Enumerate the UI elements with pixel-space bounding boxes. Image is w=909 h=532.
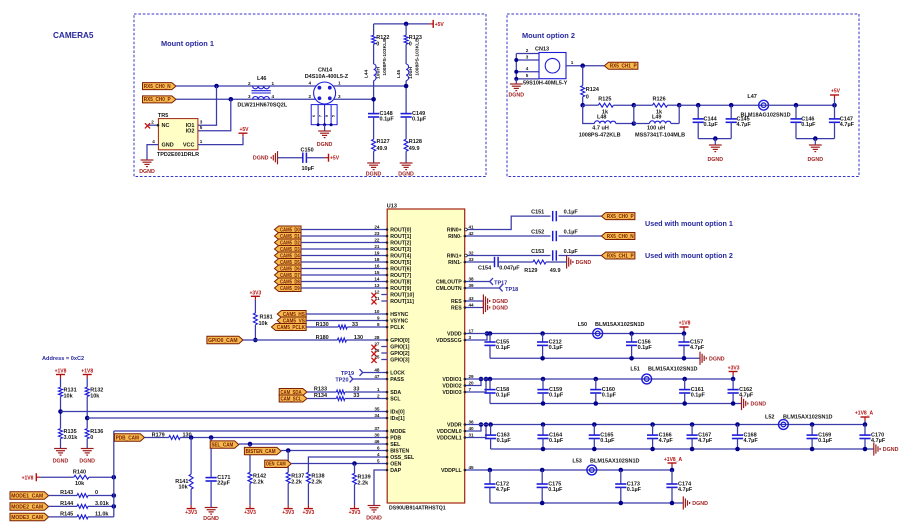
svg-text:3.01k: 3.01k <box>64 435 79 441</box>
capacitor C152 <box>552 231 554 241</box>
svg-text:BLM15AX102SN1D: BLM15AX102SN1D <box>783 415 833 421</box>
svg-text:RX5_CH1_P: RX5_CH1_P <box>607 253 634 259</box>
U13 pin 39 CMLOUTN <box>465 287 471 289</box>
svg-text:0.1µF: 0.1µF <box>549 393 564 399</box>
svg-text:32: 32 <box>469 250 475 255</box>
port CAM5_HS <box>277 311 306 318</box>
common-mode choke L46 <box>253 86 270 89</box>
svg-text:SDA: SDA <box>390 390 401 396</box>
junction IDx0 net <box>58 409 63 414</box>
U13 pin 1 SDA <box>381 391 387 393</box>
resistor R133 <box>336 390 345 394</box>
svg-text:20: 20 <box>469 380 475 385</box>
svg-text:6: 6 <box>312 115 316 117</box>
svg-text:1008PS-472KLB: 1008PS-472KLB <box>579 133 621 139</box>
svg-text:OSS_SEL: OSS_SEL <box>390 455 415 461</box>
capacitor C171 <box>206 477 217 479</box>
svg-text:0.1µF: 0.1µF <box>564 210 579 216</box>
svg-text:DLW21HN670SQ2L: DLW21HN670SQ2L <box>237 103 287 109</box>
svg-text:GPIO0_CAM: GPIO0_CAM <box>208 338 238 344</box>
wire RIN0- to C152 <box>471 235 551 237</box>
svg-text:R129: R129 <box>524 268 537 274</box>
U13 pin 29 VDDIO1 <box>465 378 471 380</box>
svg-text:DGND: DGND <box>751 402 767 408</box>
capacitor C166 <box>650 422 655 427</box>
svg-text:R181: R181 <box>260 315 273 321</box>
ground DGND RES 44 <box>471 307 483 309</box>
wire group4 ground rail <box>490 502 683 504</box>
svg-text:IO2: IO2 <box>186 129 195 135</box>
capacitor C173 <box>619 468 624 473</box>
U13 pin 2 SCL <box>381 398 387 400</box>
svg-text:L53: L53 <box>572 459 581 465</box>
capacitor C164 <box>541 422 546 427</box>
junction filter rail left <box>580 103 585 108</box>
U13 pin 45 VDDPLL <box>465 469 471 471</box>
svg-text:0.1µF: 0.1µF <box>380 117 395 123</box>
wire L44 to C148 <box>373 81 375 114</box>
wire OSS_SEL to R138 <box>308 457 381 472</box>
svg-text:2: 2 <box>377 393 380 398</box>
svg-text:4.7µF: 4.7µF <box>678 487 693 493</box>
ground DGND DAP <box>368 505 381 507</box>
junction MODE bus R144 <box>112 504 117 509</box>
U13 pin 5 OEN <box>381 463 387 465</box>
svg-text:5: 5 <box>331 115 335 117</box>
svg-text:0: 0 <box>586 95 589 101</box>
svg-text:21: 21 <box>374 244 380 249</box>
svg-text:10: 10 <box>374 309 380 314</box>
junction C147 +5V <box>832 103 837 108</box>
ground DGND R135 <box>54 448 67 450</box>
svg-text:0.1µF: 0.1µF <box>548 487 563 493</box>
wire R130 to PCLK <box>347 326 381 328</box>
wire TR5 GND to ground <box>147 145 158 160</box>
svg-text:IDx[1]: IDx[1] <box>390 416 405 422</box>
capacitor C162 <box>731 377 736 382</box>
svg-text:23: 23 <box>374 231 380 236</box>
wire rail R126 section <box>634 104 653 106</box>
svg-text:RX5_CH0_P: RX5_CH0_P <box>607 214 634 220</box>
svg-text:R124: R124 <box>586 87 600 93</box>
svg-text:+1V8: +1V8 <box>679 321 691 327</box>
svg-text:49.9: 49.9 <box>409 146 420 152</box>
svg-text:GPIO[2]: GPIO[2] <box>390 351 410 357</box>
svg-text:DGND: DGND <box>883 447 899 453</box>
svg-text:2: 2 <box>248 81 251 86</box>
wire CN14 shield to ground <box>324 125 326 131</box>
svg-text:L50: L50 <box>578 322 587 328</box>
capacitor C158 <box>488 377 493 382</box>
wire C171 to ground <box>210 481 212 508</box>
resistor R126 <box>653 103 668 107</box>
TR5 pin 2 NC no-connect <box>148 124 158 126</box>
ground DGND below CN14 <box>318 130 331 132</box>
svg-text:0.047µF: 0.047µF <box>499 266 520 272</box>
svg-text:VDDD: VDDD <box>447 331 462 337</box>
svg-text:ROUT[1]: ROUT[1] <box>390 234 411 240</box>
svg-text:GPIO[1]: GPIO[1] <box>390 344 410 350</box>
svg-text:0: 0 <box>376 42 379 48</box>
resistor R129 <box>533 260 546 264</box>
svg-text:Address = 0xC2: Address = 0xC2 <box>42 356 84 362</box>
wire rail to C144/C145 <box>679 104 763 106</box>
ferrite bead L50 <box>593 329 603 339</box>
svg-text:CN13: CN13 <box>535 46 549 52</box>
svg-text:33: 33 <box>469 257 475 262</box>
port CAM_SDA <box>279 389 307 396</box>
svg-text:36: 36 <box>469 419 475 424</box>
svg-text:MODE2_CAM: MODE2_CAM <box>11 504 43 510</box>
wire TR5 IO2 to CH0_P <box>198 99 231 130</box>
resistor R134 <box>336 397 345 401</box>
svg-text:1: 1 <box>571 60 574 65</box>
wire R131 to IDx0 net <box>60 397 62 429</box>
svg-text:4.7µF: 4.7µF <box>737 122 752 128</box>
svg-text:2.2k: 2.2k <box>291 479 303 485</box>
wire CAM5_D8 <box>301 281 381 283</box>
testpoint TP17 <box>471 281 490 283</box>
svg-text:HSYNC: HSYNC <box>390 312 408 318</box>
port CAM5_VS <box>277 317 306 324</box>
wire R123 to L45 <box>405 44 407 64</box>
wire R144 to MODE bus <box>88 505 114 507</box>
power +3V3 R141 <box>187 508 196 510</box>
resistor R180 <box>337 338 346 342</box>
svg-text:0.1µF: 0.1µF <box>600 438 615 444</box>
svg-text:43: 43 <box>469 296 475 301</box>
wire VDDCML1 riser <box>471 425 486 438</box>
wire VDDR rail <box>471 424 865 426</box>
svg-text:0.1µF: 0.1µF <box>691 393 706 399</box>
capacitor C153 <box>552 250 554 260</box>
svg-text:44: 44 <box>469 302 475 307</box>
svg-text:2.2k: 2.2k <box>311 479 323 485</box>
svg-text:DGND: DGND <box>492 299 508 305</box>
resistor R122 <box>372 35 376 44</box>
wire RX5_CH0_P row <box>176 98 316 100</box>
resistor R144 <box>77 504 88 508</box>
U13 pin 3 VDDSSCG <box>465 339 471 341</box>
ground DGND group4 <box>682 496 684 509</box>
svg-text:3: 3 <box>526 54 529 59</box>
svg-text:RIN0-: RIN0- <box>448 234 462 240</box>
capacitor C146 <box>795 105 797 119</box>
wire OEN_CAM to OEN <box>291 463 381 465</box>
capacitor C160 <box>594 377 599 382</box>
svg-text:+1V8_A: +1V8_A <box>855 411 874 417</box>
wire VDDPLL rail <box>471 469 672 471</box>
svg-text:R145: R145 <box>60 511 73 517</box>
resistor R123 <box>404 35 408 44</box>
wire R179 to PDB <box>180 437 381 439</box>
wire RIN1+ to C153 <box>471 255 551 257</box>
svg-text:ROUT[6]: ROUT[6] <box>390 266 411 272</box>
svg-text:39: 39 <box>469 283 475 288</box>
U13 pin 31 VDDCML1 <box>465 437 471 439</box>
port GPIO0_CAM <box>207 336 243 343</box>
wire R142 to +3V3 <box>249 483 251 505</box>
svg-text:4.7µF: 4.7µF <box>496 487 511 493</box>
capacitor C175 <box>540 468 545 473</box>
port MODE3_CAM <box>10 513 49 521</box>
svg-text:40: 40 <box>469 426 475 431</box>
U13 pin 27 GPIO[1] <box>381 346 387 348</box>
svg-text:R144: R144 <box>60 501 74 507</box>
svg-text:L49: L49 <box>652 115 661 121</box>
svg-text:L44: L44 <box>364 70 370 79</box>
svg-text:BISTEN_CAM: BISTEN_CAM <box>246 449 276 455</box>
svg-text:RIN1-: RIN1- <box>448 260 462 266</box>
wire CAM5_D4 <box>301 255 381 257</box>
svg-text:7: 7 <box>469 387 472 392</box>
svg-text:30: 30 <box>374 432 380 437</box>
port RX5_CH0_N <box>143 83 177 90</box>
svg-text:C150: C150 <box>301 148 314 154</box>
svg-text:C153: C153 <box>531 249 544 255</box>
wire VDDD rail <box>471 333 684 335</box>
resistor R137 <box>286 472 290 483</box>
ground DGND group2 <box>741 397 743 410</box>
svg-text:L51: L51 <box>630 367 639 373</box>
U13 pin 25 GPIO[3] <box>381 359 387 361</box>
svg-text:RIN1+: RIN1+ <box>447 253 462 259</box>
power +1V8_A group3 <box>864 421 866 425</box>
svg-text:0.1µF: 0.1µF <box>638 345 653 351</box>
svg-text:TP19: TP19 <box>341 371 354 377</box>
junction +5V rail <box>404 22 409 27</box>
resistor R143 <box>77 494 88 498</box>
wire +5V to R122 <box>373 24 375 35</box>
svg-text:SCL: SCL <box>390 396 401 402</box>
svg-text:VCC: VCC <box>183 143 195 149</box>
svg-text:5: 5 <box>377 458 380 463</box>
svg-text:DGND: DGND <box>317 142 333 148</box>
U13 pin 36 VDDR <box>465 424 471 426</box>
svg-text:19: 19 <box>374 250 380 255</box>
wire TR5 VCC to +5V <box>198 137 243 145</box>
port SEL_CAM <box>210 441 239 448</box>
svg-text:U13: U13 <box>387 204 397 210</box>
svg-text:2: 2 <box>526 48 529 53</box>
svg-text:BLM15AX102SN1D: BLM15AX102SN1D <box>590 459 640 465</box>
svg-text:R133: R133 <box>314 386 327 392</box>
svg-text:1008PS-103KLB: 1008PS-103KLB <box>414 38 420 76</box>
ground DGND column1 mount1 <box>367 162 380 164</box>
wire +5V to R123 <box>405 24 407 35</box>
U13 pin 4 OSS_SEL <box>381 456 387 458</box>
wire R141 to +3V3 <box>190 489 192 505</box>
U13 pin 24 ROUT[0] <box>381 229 387 231</box>
svg-text:DGND: DGND <box>692 501 708 507</box>
U13 pin 12 ROUT[10] <box>381 294 387 296</box>
port RX5_CH1_P out <box>601 252 635 259</box>
svg-text:RES: RES <box>451 299 462 305</box>
wire CAM_SCL to R134 <box>307 398 336 400</box>
svg-text:ROUT[0]: ROUT[0] <box>390 227 411 233</box>
svg-text:TP20: TP20 <box>335 378 348 384</box>
mount option 2 dashed frame <box>507 14 859 177</box>
junction IDx1 net <box>85 416 90 421</box>
svg-text:3: 3 <box>248 94 251 99</box>
svg-text:46: 46 <box>374 439 380 444</box>
svg-text:38: 38 <box>469 276 475 281</box>
svg-text:1: 1 <box>338 81 341 86</box>
wire GPIO0_CAM to R180 <box>243 339 337 341</box>
mount option 1 dashed frame <box>134 14 486 177</box>
junction nodes CN14 shield <box>317 123 320 126</box>
svg-text:VDDCML0: VDDCML0 <box>437 429 462 435</box>
wire RX5_CH0_N row <box>176 85 316 87</box>
ferrite bead L51 <box>642 374 652 384</box>
wire R135 to ground <box>60 439 62 449</box>
wire SEL to R142 <box>249 444 251 472</box>
U13 pin 11 ROUT[11] <box>381 300 387 302</box>
junction MODE bus R140 <box>112 475 117 480</box>
svg-text:ROUT[3]: ROUT[3] <box>390 247 411 253</box>
ground DGND RES 43 <box>471 300 483 302</box>
svg-text:0: 0 <box>409 42 412 48</box>
resistor R141 <box>189 474 193 489</box>
wire CAM_SDA to R133 <box>307 391 336 393</box>
svg-text:BLM18AG102SN1D: BLM18AG102SN1D <box>741 113 791 119</box>
inductor L44 <box>374 64 377 81</box>
CN14 shield box <box>311 105 337 125</box>
svg-text:VDDIO3: VDDIO3 <box>442 390 461 396</box>
port CAM5_D9 <box>275 285 302 292</box>
resistor R179 <box>169 436 180 440</box>
svg-text:DGND: DGND <box>139 169 155 175</box>
svg-text:DGND: DGND <box>53 459 69 465</box>
svg-text:ROUT[2]: ROUT[2] <box>390 240 411 246</box>
svg-text:0.1µF: 0.1µF <box>412 117 427 123</box>
svg-text:+5V: +5V <box>239 127 249 133</box>
wire CAM5_D5 <box>301 261 381 263</box>
resistor R140 <box>74 475 89 479</box>
svg-text:MSS7341T-104MLB: MSS7341T-104MLB <box>635 133 685 139</box>
svg-text:DGND: DGND <box>807 157 823 163</box>
resistor R138 <box>306 472 310 483</box>
junction OEN R139 <box>352 461 357 466</box>
wire CAM5_D2 <box>301 242 381 244</box>
svg-text:DS90UB914ATRHSTQ1: DS90UB914ATRHSTQ1 <box>389 506 446 512</box>
wire C146 C147 ground rail <box>796 138 835 140</box>
svg-text:22µF: 22µF <box>217 481 230 487</box>
svg-text:+3V3: +3V3 <box>249 290 261 296</box>
svg-text:47: 47 <box>374 374 380 379</box>
wire CAM5_D1 <box>301 235 381 237</box>
svg-text:CMLOUTN: CMLOUTN <box>436 286 462 292</box>
wire MODE2 to R144 <box>49 505 77 507</box>
resistor R131 <box>59 387 63 396</box>
wire SEL_CAM to SEL <box>239 443 381 445</box>
svg-text:DGND: DGND <box>707 157 723 163</box>
svg-text:R130: R130 <box>316 322 329 328</box>
port PDB_CAM <box>114 434 144 441</box>
svg-text:31: 31 <box>469 432 475 437</box>
svg-text:4.7µF: 4.7µF <box>840 122 855 128</box>
svg-text:3: 3 <box>338 94 341 99</box>
svg-text:0.1µF: 0.1µF <box>549 345 564 351</box>
capacitor C168 <box>735 422 740 427</box>
wire BISTEN to R137 <box>287 451 289 473</box>
svg-text:4: 4 <box>377 452 380 457</box>
svg-text:+3V3: +3V3 <box>185 510 197 516</box>
power +3V3 R142 <box>246 508 255 510</box>
junction L45 column at CH0_N row <box>404 84 409 89</box>
capacitor C165 <box>592 422 597 427</box>
resistor R128 <box>404 139 408 151</box>
svg-text:R128: R128 <box>409 139 422 145</box>
svg-text:4.7µF: 4.7µF <box>744 438 759 444</box>
capacitor C147 <box>834 105 836 119</box>
port RX5_CH0_P <box>143 96 177 103</box>
junction rail mid <box>632 103 637 108</box>
capacitor C149 <box>401 113 412 115</box>
svg-text:+5V: +5V <box>330 156 340 162</box>
U13 pin 48 LOCK <box>381 372 387 374</box>
wire VDDIO rail <box>471 378 733 380</box>
svg-text:RX5_CH0_P: RX5_CH0_P <box>144 97 171 103</box>
svg-text:0.1µF: 0.1µF <box>602 393 617 399</box>
wire R181 to GPIO0 net <box>254 325 256 340</box>
capacitor C169 <box>810 422 815 427</box>
port BISTEN_CAM <box>244 447 281 454</box>
power +3V3 group2 <box>732 375 734 379</box>
junction GPIO0 net <box>253 338 258 343</box>
power +1V8 group1 <box>683 331 685 334</box>
svg-text:18: 18 <box>374 257 380 262</box>
svg-text:13: 13 <box>374 283 380 288</box>
capacitor C156 <box>629 331 634 336</box>
capacitor C172 <box>488 468 493 473</box>
svg-text:+3V3: +3V3 <box>282 510 294 516</box>
svg-text:DGND: DGND <box>253 156 269 162</box>
wire MODE3 to R145 <box>49 516 77 518</box>
svg-text:L45: L45 <box>396 70 402 79</box>
port OEN_CAM <box>265 460 292 467</box>
ground DGND mount2 right <box>809 144 822 146</box>
connector CN14 <box>314 82 336 104</box>
port CAM5_D0 <box>275 226 302 233</box>
U13 pin 40 VDDCML0 <box>465 430 471 432</box>
svg-text:1008PS-103KLB: 1008PS-103KLB <box>382 38 388 76</box>
capacitor C154 <box>494 257 496 267</box>
wire R128 to ground <box>405 151 407 163</box>
U13 pin 47 PASS <box>381 378 387 380</box>
svg-text:CAM5_PCLK: CAM5_PCLK <box>277 325 305 331</box>
U13 pin 30 PDB <box>381 437 387 439</box>
U13 pin 46 SEL <box>381 443 387 445</box>
wire CAM5_D0 <box>301 229 381 231</box>
junction C144 <box>696 103 701 108</box>
serdes U13 body <box>387 209 465 503</box>
port RX5_CH1_P mount2 <box>604 62 638 69</box>
resistor R145 <box>77 515 88 519</box>
capacitor C145 <box>730 105 732 119</box>
svg-text:DGND: DGND <box>366 171 382 177</box>
port CAM5_D3 <box>275 246 302 253</box>
svg-text:R180: R180 <box>316 335 329 341</box>
U13 pin 38 CMLOUTP <box>465 281 471 283</box>
svg-text:RX5_CH0_N: RX5_CH0_N <box>607 234 634 240</box>
svg-text:GND: GND <box>162 143 174 149</box>
svg-text:MODE3_CAM: MODE3_CAM <box>11 515 43 521</box>
svg-text:+3V3: +3V3 <box>302 510 314 516</box>
resistor R136 <box>85 429 89 439</box>
svg-text:VDDPLL: VDDPLL <box>441 468 463 474</box>
connector CN13 <box>539 53 566 79</box>
